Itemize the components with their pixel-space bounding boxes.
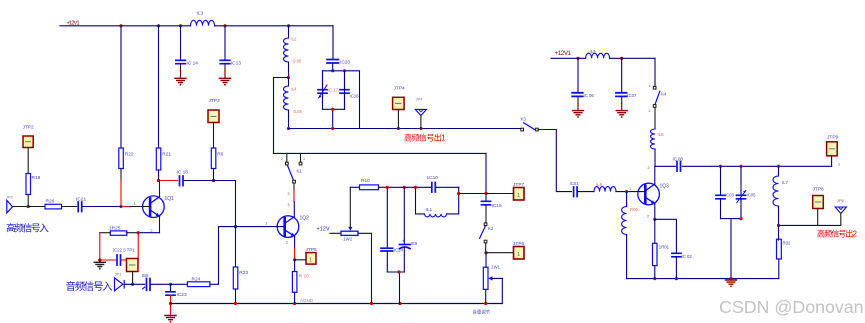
node cap branch junctions (386, 186, 389, 189)
svg-text:R24: R24 (192, 277, 201, 283)
test point JTP2 (23, 125, 35, 174)
resistor R02 (777, 225, 791, 278)
svg-text:IC 17: IC 17 (328, 88, 339, 93)
svg-text:K3: K3 (521, 117, 527, 122)
svg-text:R10: R10 (361, 178, 370, 184)
node rail junctions (119, 24, 290, 27)
svg-text:IC13: IC13 (231, 61, 241, 67)
node JTP4/JP4 junctions (331, 127, 334, 130)
switch K3 (521, 117, 572, 192)
svg-text:1: 1 (838, 163, 840, 167)
node JP2 junction (27, 205, 30, 208)
node base junction (234, 225, 237, 228)
node rail junctions (234, 302, 487, 305)
wire R6 node to Q2 base column (214, 181, 236, 227)
node VW1 junction (484, 251, 487, 254)
transistor Q2 (277, 216, 309, 245)
svg-text:R 16: R 16 (299, 274, 309, 280)
svg-text:R02: R02 (783, 241, 791, 246)
inductor IL5 (594, 182, 645, 192)
svg-text:1: 1 (265, 221, 268, 226)
wire (red) TP1 column (137, 233, 139, 259)
wire RF out 1 line (289, 128, 521, 130)
antenna JP6 (835, 198, 846, 225)
node JTP7 junction (484, 192, 487, 195)
ground (IC06) (573, 111, 584, 118)
capacitor IC03 (716, 166, 734, 218)
variable capacitor IC05 (737, 166, 757, 218)
inductor IL9 (586, 53, 610, 58)
svg-text:1R01: 1R01 (659, 245, 670, 250)
node JTP5 junction (293, 258, 296, 261)
switch K4 (649, 58, 668, 129)
inductor IL2 (284, 26, 302, 78)
node emitter junction (137, 231, 140, 234)
wire collector line (655, 165, 832, 167)
test point JTP7 (486, 182, 525, 200)
wire IC15 column from K1 line (485, 153, 487, 201)
ground (IC14) (175, 78, 186, 85)
resistor R26 (28, 199, 76, 209)
svg-text:JTP2: JTP2 (23, 125, 35, 131)
node Q1 collector junction (157, 179, 160, 182)
svg-text:1W1: 1W1 (491, 265, 500, 270)
svg-text:JP4: JP4 (416, 97, 424, 102)
capacitor IE8 (142, 273, 171, 290)
wire +12V1 rail 2 (551, 57, 655, 59)
transistor Q1 (134, 181, 175, 234)
test point JTP4 (393, 86, 405, 129)
wire +12V1 rail (60, 25, 333, 27)
svg-text:IL3: IL3 (197, 11, 204, 17)
potentiometer VW1 (483, 253, 502, 304)
node collector line junctions (719, 165, 722, 168)
node R6 junction (212, 179, 215, 182)
svg-text:IC22 3 TP1: IC22 3 TP1 (113, 248, 135, 253)
svg-text:R06: R06 (630, 207, 638, 212)
switch K2 (480, 223, 494, 253)
svg-text:JTP8: JTP8 (813, 187, 825, 193)
wire base line (219, 226, 285, 228)
svg-text:+12V: +12V (317, 227, 330, 233)
resistor R24 (171, 227, 219, 287)
svg-text:2: 2 (649, 109, 651, 113)
svg-text:3: 3 (288, 192, 290, 196)
node Q3 base junction (625, 190, 628, 193)
wire AGND rail (171, 303, 503, 305)
variable capacitor IC17 (318, 71, 338, 110)
svg-text:1C10: 1C10 (427, 175, 439, 181)
node IL4 bottom junction (287, 127, 290, 130)
inductor IL7 (773, 166, 789, 225)
connector JP2 (6, 195, 28, 214)
wire RF out 2 line (779, 224, 841, 226)
svg-text:IC15: IC15 (492, 203, 502, 209)
svg-text:1: 1 (517, 193, 520, 199)
wire K1 feed line (274, 152, 487, 154)
resistor R18 (26, 174, 41, 207)
svg-text:IC16: IC16 (350, 94, 360, 99)
svg-text:IC20: IC20 (340, 60, 350, 66)
svg-text:+12V1: +12V1 (555, 50, 572, 57)
wire caps join / center ground drop (721, 219, 742, 279)
resistor R10 (350, 178, 431, 190)
svg-text:IL4: IL4 (291, 87, 298, 92)
svg-text:R18: R18 (32, 175, 41, 181)
wire branch to K1 feed (274, 78, 289, 154)
svg-text:音频信号入: 音频信号入 (66, 280, 114, 293)
node rail2 junctions (576, 57, 579, 60)
svg-text:2: 2 (286, 241, 288, 245)
capacitor IC16 (340, 71, 359, 110)
node tank1 right junction (457, 192, 460, 195)
capacitor IC02 (655, 219, 693, 278)
capacitor IC14 (176, 26, 198, 79)
ground (black) (99, 260, 101, 262)
resistor R16 (292, 260, 309, 304)
svg-text:1Q2: 1Q2 (300, 216, 310, 222)
svg-text:K4: K4 (661, 92, 667, 97)
ground (IC07) (616, 111, 627, 118)
resistor R25 (100, 226, 138, 236)
svg-text:R23: R23 (239, 270, 248, 276)
wire tank2 frame (323, 71, 345, 129)
capacitor IC18 (177, 170, 214, 186)
node join junction (739, 217, 742, 220)
svg-text:IL2: IL2 (291, 37, 298, 42)
svg-text:IC 08: IC 08 (673, 157, 684, 162)
potentiometer VW2 (330, 187, 372, 303)
svg-text:IC21: IC21 (76, 197, 86, 203)
capacitor IC15 (482, 201, 502, 223)
node Q1 base junction (119, 205, 122, 208)
test point TP1 (127, 259, 139, 285)
test point JTP3 (208, 98, 220, 148)
svg-text:IC07: IC07 (627, 93, 637, 98)
wire (red) to IC18 (159, 180, 178, 182)
transistor Q3 (638, 166, 669, 219)
svg-text:IE9: IE9 (411, 241, 418, 246)
wire Q1 emitter run (138, 232, 159, 234)
switch K1 (281, 153, 305, 183)
svg-text:IL1: IL1 (426, 207, 433, 213)
capacitor IC23 (166, 284, 187, 316)
node red corner (98, 258, 101, 261)
svg-text:IL5: IL5 (596, 182, 603, 187)
capacitor 1C10 (tank1 top) (427, 175, 459, 192)
svg-text:JP1: JP1 (115, 272, 123, 277)
svg-text:1Q3: 1Q3 (660, 184, 670, 190)
resistor R22 (119, 26, 134, 207)
node tank top junction (331, 69, 334, 72)
wire (red) base (121, 206, 130, 208)
resistor R01 (653, 219, 670, 278)
ground (IC13) (220, 78, 231, 85)
node R02 junction (777, 224, 780, 227)
inductor IL1 (tank1 bottom) (416, 187, 459, 217)
inductor R06 (622, 192, 639, 279)
node JP1 line junction (131, 283, 134, 286)
connector JP1 (115, 272, 145, 291)
capacitor IC01 (570, 181, 595, 197)
svg-text:1Q1: 1Q1 (165, 196, 175, 202)
svg-text:IC23: IC23 (177, 292, 187, 298)
node AGND rail start (169, 302, 172, 305)
wire (red) R25 to cap (100, 233, 116, 260)
svg-text:IL8: IL8 (658, 132, 665, 137)
svg-text:R26: R26 (46, 199, 55, 205)
ground (IC23, below AGND rail) (165, 316, 176, 323)
capacitor IC13 (220, 26, 241, 79)
svg-text:CSDN @Donovan.xf: CSDN @Donovan.xf (719, 297, 865, 317)
svg-text:0.05: 0.05 (294, 109, 303, 114)
node ground junction (729, 277, 732, 280)
antenna JP4 (415, 97, 426, 129)
svg-text:1: 1 (649, 84, 651, 88)
svg-text:IC 14: IC 14 (187, 61, 199, 67)
svg-text:IC05: IC05 (747, 193, 757, 198)
node Q3 emitter junction (653, 218, 656, 221)
capacitor IC07 (616, 58, 637, 110)
svg-text:IC03: IC03 (725, 193, 735, 198)
svg-text:高频信号出2: 高频信号出2 (817, 229, 857, 239)
svg-text:1: 1 (309, 258, 312, 264)
test point JTP6 (486, 241, 525, 259)
svg-text:IC 02: IC 02 (682, 254, 693, 259)
capacitor IC08 (673, 157, 684, 172)
svg-text:JP2: JP2 (6, 195, 14, 200)
svg-text:高频信号出1: 高频信号出1 (404, 132, 446, 142)
node tank bottom junction (331, 108, 334, 111)
svg-text:1: 1 (303, 157, 305, 161)
svg-text:1: 1 (629, 187, 631, 191)
svg-text:2: 2 (281, 157, 283, 161)
capacitor IC06 (572, 58, 594, 110)
resistor R23 (233, 227, 248, 304)
svg-text:JTP3: JTP3 (209, 98, 221, 104)
svg-text:JTP9: JTP9 (827, 135, 839, 141)
inductor IL3 (191, 20, 215, 26)
svg-text:IC01: IC01 (570, 181, 580, 186)
svg-text:2: 2 (648, 166, 650, 170)
test point JTP9 (827, 135, 840, 167)
capacitor IC24 (381, 187, 404, 272)
svg-text:K1: K1 (297, 169, 303, 174)
svg-text:1R25: 1R25 (109, 226, 121, 232)
svg-text:IE8: IE8 (142, 273, 149, 278)
svg-text:IC 18: IC 18 (177, 170, 189, 176)
svg-text:JTP4: JTP4 (394, 86, 406, 92)
svg-text:3: 3 (288, 203, 290, 207)
svg-text:IC 06: IC 06 (584, 93, 595, 98)
wire Q2 emitter (294, 236, 296, 248)
inductor IL4 (284, 78, 303, 129)
svg-text:K2: K2 (488, 226, 494, 231)
wire to IC15 column (459, 193, 486, 195)
svg-text:IL7: IL7 (782, 180, 789, 185)
inductor IL8 (651, 129, 665, 166)
capacitor IC20 (327, 26, 350, 71)
svg-text:音量调节: 音量调节 (473, 309, 491, 316)
capacitor IC21 (76, 197, 121, 212)
resistor R6 (211, 148, 223, 181)
svg-text:R22: R22 (125, 152, 134, 158)
test point JTP5 (295, 247, 317, 264)
wire caps join (387, 272, 404, 304)
svg-text:高频信号入: 高频信号入 (6, 221, 49, 234)
svg-text:+: + (402, 238, 405, 243)
svg-text:IL9: IL9 (590, 49, 597, 54)
svg-text:JP6: JP6 (837, 198, 845, 203)
ground (right circuit) (726, 280, 737, 287)
node rail2 bottom junctions (653, 277, 656, 280)
svg-text:0.05: 0.05 (293, 59, 302, 64)
svg-text:AGND: AGND (300, 298, 314, 303)
resistor R21 (156, 26, 171, 181)
svg-text:1: 1 (134, 201, 137, 206)
svg-text:R6: R6 (217, 152, 223, 158)
test point JTP8 (813, 187, 825, 226)
svg-text:2: 2 (647, 215, 649, 219)
svg-text:R21: R21 (162, 152, 171, 158)
wire bottom rail 2 (627, 278, 779, 280)
svg-text:1: 1 (517, 252, 520, 258)
node IC23 junction (169, 283, 172, 286)
svg-text:1W2: 1W2 (343, 237, 352, 242)
capacitor IE9 (400, 187, 418, 272)
node IL2/IL4 junction (287, 76, 290, 79)
node caps join junction (397, 270, 400, 273)
wire Q2 collector (293, 183, 295, 190)
capacitor IC22 (113, 248, 135, 266)
